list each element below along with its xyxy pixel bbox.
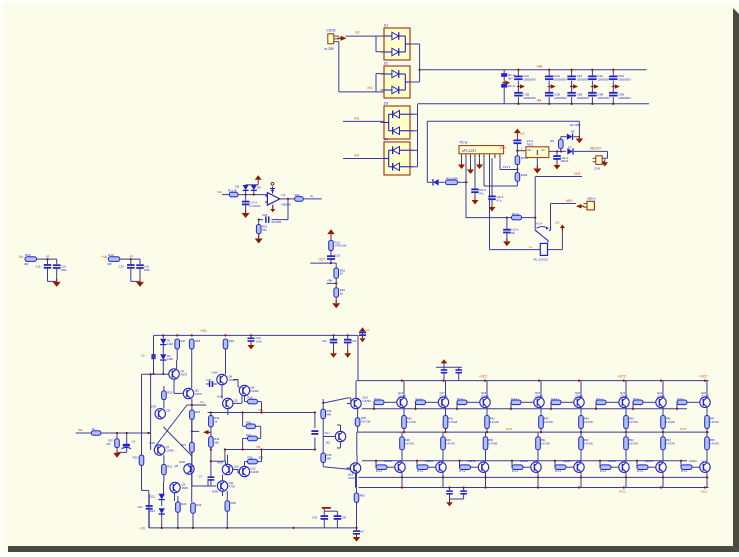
resistor lower emitter 0 <box>400 432 415 462</box>
svg-text:RL-12VDC: RL-12VDC <box>534 258 549 262</box>
wire Q25 collector <box>442 472 444 487</box>
transistor Q20 top out <box>574 391 584 407</box>
svg-text:100n: 100n <box>256 339 262 343</box>
svg-text:100k: 100k <box>521 173 528 177</box>
svg-text:R43: R43 <box>544 417 549 421</box>
resistor R29 <box>245 396 262 413</box>
IC U2 uPC1237 <box>459 141 504 154</box>
transistor Q1 <box>169 369 188 379</box>
svg-text:C4: C4 <box>132 440 136 444</box>
svg-text:R 2.2: R 2.2 <box>511 398 518 401</box>
svg-text:R32: R32 <box>248 456 254 460</box>
svg-text:+VCC: +VCC <box>479 375 488 379</box>
wire bus lower <box>225 445 316 451</box>
resistor RF2 <box>107 253 120 266</box>
svg-text:R 2.2: R 2.2 <box>681 470 688 473</box>
wire top caps <box>436 363 462 367</box>
svg-text:R 2.2: R 2.2 <box>374 398 381 401</box>
net label m1 <box>355 31 360 35</box>
net label IN <box>78 428 83 432</box>
wire driver col <box>357 367 359 380</box>
resistor emitter Q19 <box>539 407 554 433</box>
svg-text:D1: D1 <box>384 24 388 28</box>
diode D11 bias <box>160 354 173 375</box>
svg-text:C5A: C5A <box>618 74 624 78</box>
transistor Q23 top out <box>700 391 710 407</box>
capacitor C2-B filter bottom <box>545 87 567 105</box>
wire base bus top <box>362 408 687 410</box>
svg-text:R17: R17 <box>181 339 187 343</box>
capacitor C12 <box>503 218 518 241</box>
svg-text:12V: 12V <box>555 221 560 225</box>
resistor R12 <box>295 193 304 201</box>
wire to cap <box>330 251 332 256</box>
power port divider <box>327 229 335 240</box>
ground bottom <box>353 534 361 542</box>
capacitor C17 <box>242 195 261 213</box>
ground zobel <box>446 499 453 506</box>
svg-text:R44: R44 <box>584 417 589 421</box>
resistor R13 75k <box>256 220 267 234</box>
svg-text:R 2.2: R 2.2 <box>633 398 640 401</box>
wire spreader to driver tops <box>348 398 351 469</box>
svg-text:Q26: Q26 <box>481 460 487 464</box>
capacitor C19 <box>327 254 340 264</box>
svg-text:100u: 100u <box>61 268 68 272</box>
svg-text:C15: C15 <box>35 265 41 269</box>
svg-text:R25: R25 <box>133 455 139 459</box>
svg-text:C23: C23 <box>351 339 356 343</box>
svg-text:R 2.2: R 2.2 <box>512 470 519 473</box>
resistor lower emitter 2 <box>483 432 498 462</box>
resistor R30 <box>243 413 261 450</box>
svg-text:R20: R20 <box>167 391 173 395</box>
svg-text:R51: R51 <box>541 438 546 442</box>
svg-text:Q31: Q31 <box>702 460 708 464</box>
svg-text:KB5-A: KB5-A <box>587 196 596 200</box>
resistor lower emitter 1 <box>441 432 456 462</box>
svg-text:D7: D7 <box>568 145 572 149</box>
svg-text:7812: 7812 <box>527 143 534 147</box>
capacitor C2-A filter top <box>545 69 567 87</box>
power cluster corner <box>359 327 370 342</box>
svg-text:D13: D13 <box>150 509 155 513</box>
diode D8 <box>235 185 248 195</box>
wire m1 <box>346 36 385 52</box>
wire front +rail <box>154 329 358 335</box>
ground pin3 <box>467 158 474 174</box>
svg-text:A1943: A1943 <box>384 459 392 463</box>
svg-text:C2A: C2A <box>554 74 560 78</box>
transistor Q2 <box>183 388 202 398</box>
svg-text:+b: +b <box>129 254 133 258</box>
svg-text:R46: R46 <box>666 417 671 421</box>
wire +V rail <box>420 65 647 70</box>
svg-text:R23: R23 <box>181 502 187 506</box>
resistor R33a <box>209 413 220 437</box>
power port mid bleeder <box>502 81 510 86</box>
transistor Q9 <box>170 482 188 492</box>
svg-text:OUT: OUT <box>319 258 326 262</box>
svg-text:100u: 100u <box>144 268 151 272</box>
resistor base Q17 <box>414 398 438 410</box>
resistor base Q27 <box>511 460 531 473</box>
svg-text:R 2.2: R 2.2 <box>555 470 562 473</box>
svg-text:C24: C24 <box>138 505 143 509</box>
resistor emitter Q21 <box>624 407 639 433</box>
wire Q1 <box>174 349 183 393</box>
ground C11 <box>554 162 561 170</box>
svg-text:2W: 2W <box>24 262 29 266</box>
svg-text:0.47/2W: 0.47/2W <box>541 442 551 445</box>
svg-text:K1-A: K1-A <box>537 222 543 226</box>
svg-text:R 2.2: R 2.2 <box>460 470 467 473</box>
svg-text:-VA: -VA <box>18 255 24 259</box>
svg-text:C2B: C2B <box>554 92 560 96</box>
svg-text:4148: 4148 <box>167 342 173 346</box>
wire Q23 collector <box>706 381 708 398</box>
wire VAS upper <box>222 349 242 415</box>
wire front -V column <box>354 470 365 529</box>
net label m2 <box>368 86 373 90</box>
svg-text:4k7: 4k7 <box>508 76 513 80</box>
svg-text:100uF: 100uF <box>561 159 569 163</box>
ground regulator <box>533 158 541 174</box>
svg-text:C19: C19 <box>335 254 341 258</box>
wire Q31 collector <box>706 472 708 487</box>
net label OUT divider <box>319 258 326 262</box>
capacitor CF1b <box>53 259 67 281</box>
svg-text:C3B: C3B <box>577 92 583 96</box>
net dots front rail <box>152 334 349 375</box>
wire pin2 sense <box>465 158 467 217</box>
power port gnd tap 4 <box>591 84 599 89</box>
svg-text:Q28: Q28 <box>576 460 582 464</box>
capacitor C5-B filter bottom <box>609 87 631 105</box>
transistor Q25 bottom out <box>425 459 446 472</box>
svg-text:R42: R42 <box>490 417 495 421</box>
svg-text:C4A: C4A <box>597 74 603 78</box>
wire OUT bus <box>357 427 709 432</box>
svg-text:TH 1: TH 1 <box>324 431 330 435</box>
resistor base Q23 <box>676 398 700 410</box>
svg-text:47u: 47u <box>497 198 502 202</box>
svg-text:R 2.2: R 2.2 <box>457 398 464 401</box>
svg-text:R 2.2: R 2.2 <box>376 470 383 473</box>
svg-text:C2240: C2240 <box>166 448 175 452</box>
relay K1 coil <box>534 243 549 261</box>
svg-text:D4: D4 <box>384 138 388 142</box>
resistor emitter Q22 <box>661 407 676 433</box>
svg-text:C7: C7 <box>199 475 203 479</box>
diode D5 <box>427 179 444 185</box>
svg-text:C3A: C3A <box>577 74 583 78</box>
svg-text:U1: U1 <box>282 193 286 197</box>
capacitor C1-B filter bottom <box>514 87 536 105</box>
svg-text:C1A: C1A <box>523 74 529 78</box>
resistor base Q26 <box>458 460 478 473</box>
svg-text:-VD: -VD <box>140 527 146 531</box>
svg-text:D6: D6 <box>571 130 575 134</box>
capacitor C3-B filter bottom <box>567 87 589 105</box>
resistor R28 <box>225 491 236 528</box>
svg-text:C4793: C4793 <box>363 399 372 403</box>
svg-text:m3: m3 <box>354 116 359 120</box>
power arrow MD <box>576 204 585 209</box>
wire front caps <box>324 511 337 515</box>
capacitor C10 <box>513 136 521 151</box>
ground J2 <box>602 159 609 166</box>
capacitor C28 spreader <box>311 430 318 435</box>
svg-text:C33: C33 <box>312 516 317 520</box>
resistor base Q22 <box>632 398 656 410</box>
resistor R4 <box>515 151 528 171</box>
wire tap <box>327 278 338 287</box>
svg-text:1K2: 1K2 <box>325 441 330 445</box>
ground pin1 <box>458 158 465 169</box>
svg-text:C3280: C3280 <box>701 394 709 398</box>
net label MD+ <box>566 199 573 203</box>
regulator U3 7812 <box>526 139 549 157</box>
resistor lower emitter 3 <box>536 432 551 462</box>
wire pin7 to coil <box>490 245 541 250</box>
resistor base Q20 <box>550 398 574 410</box>
svg-text:R29: R29 <box>248 396 254 400</box>
wire cross couple 1 <box>163 427 192 456</box>
capacitor C4-A filter top <box>588 69 610 87</box>
resistor R22 <box>190 399 201 433</box>
resistor R23 <box>176 496 187 528</box>
wire input <box>76 432 92 434</box>
wire bus stubs <box>208 411 212 413</box>
transistor Q28 bottom out <box>563 459 584 472</box>
wire regulator out <box>549 150 566 152</box>
svg-text:R41: R41 <box>448 417 453 421</box>
svg-text:100 2W: 100 2W <box>361 419 371 423</box>
svg-text:0.47/2W: 0.47/2W <box>710 442 720 445</box>
svg-text:1V+: 1V+ <box>200 400 206 404</box>
svg-text:IN1: IN1 <box>78 428 83 432</box>
svg-text:R12: R12 <box>295 193 301 197</box>
svg-text:NJW: NJW <box>149 441 155 445</box>
transistor Q12 <box>239 466 259 476</box>
wire cross couple 2 <box>156 405 187 446</box>
wire OUT to relay <box>535 177 582 227</box>
svg-text:R24: R24 <box>196 503 202 507</box>
wire spreader frame <box>315 398 348 469</box>
resistor R3 10k <box>446 177 468 185</box>
resistor R5 100k <box>515 170 528 187</box>
svg-text:C4B: C4B <box>597 92 603 96</box>
capacitor C5-A filter top <box>609 69 631 87</box>
power mid arrow left <box>203 430 212 435</box>
wire filter 1 <box>37 254 57 260</box>
wire collector bus bottom <box>359 476 709 478</box>
transistor Q21 top out <box>619 391 629 407</box>
resistor R2-A bleeder bottom <box>501 77 515 104</box>
transistor Q3 <box>150 405 171 419</box>
svg-text:47k: 47k <box>106 442 111 446</box>
svg-text:C18: C18 <box>262 213 268 217</box>
resistor R11 <box>222 189 238 197</box>
svg-text:C21: C21 <box>256 336 261 340</box>
net label IN <box>217 190 222 194</box>
net label V2 <box>101 255 108 259</box>
svg-text:R47: R47 <box>710 417 715 421</box>
diode D12 <box>150 494 165 506</box>
resistor lower emitter 7 <box>705 432 720 462</box>
svg-text:0.47/2W: 0.47/2W <box>490 421 500 424</box>
resistor lower emitter 5 <box>624 432 639 462</box>
resistor base Q18 <box>456 398 480 410</box>
resistor base Q21 <box>595 398 619 410</box>
wire m3 <box>343 116 384 121</box>
capacitor C35 bottom <box>353 528 365 537</box>
svg-text:+VD: +VD <box>200 329 207 333</box>
svg-text:10000/50V: 10000/50V <box>523 78 536 82</box>
wire input gnd <box>117 451 127 453</box>
svg-text:Q8: Q8 <box>174 464 178 468</box>
rectifier diode pair D2 <box>381 62 414 99</box>
svg-text:Q27: Q27 <box>533 460 539 464</box>
svg-text:R53: R53 <box>629 438 634 442</box>
transistor Q24 bottom out <box>384 459 405 472</box>
resistor emitter Q18 <box>485 407 500 433</box>
svg-text:R 2.2: R 2.2 <box>600 470 607 473</box>
wire output +rail <box>357 380 709 382</box>
svg-text:0.47/2W: 0.47/2W <box>584 442 594 445</box>
resistor R36 driver <box>355 409 370 432</box>
capacitor CF1a <box>35 259 51 281</box>
wire base bus bottom <box>362 460 687 462</box>
svg-text:C3280: C3280 <box>535 394 543 398</box>
resistor R35 <box>321 453 332 463</box>
wire Q29 collector <box>625 472 627 487</box>
power port 12V relay <box>555 221 565 232</box>
resistor emitter Q16 <box>402 407 417 433</box>
svg-text:IN1: IN1 <box>217 190 222 194</box>
svg-text:0.47/2W: 0.47/2W <box>629 442 639 445</box>
rectifier diode pair D1 <box>381 24 414 61</box>
wire reg input <box>516 148 526 152</box>
capacitor C31 zobel <box>446 486 463 499</box>
svg-text:OUT: OUT <box>506 427 513 431</box>
wire diode tops <box>246 184 259 186</box>
svg-text:0.47/2W: 0.47/2W <box>629 421 639 424</box>
capacitor C1-A filter top <box>514 69 536 87</box>
resistor R19 <box>223 339 234 349</box>
svg-text:C3280: C3280 <box>575 394 583 398</box>
svg-text:2W: 2W <box>107 262 112 266</box>
diode D7 <box>567 145 608 154</box>
ground C22 <box>330 350 337 358</box>
net dots front bottom <box>161 527 295 529</box>
svg-text:A1943: A1943 <box>689 459 697 463</box>
wire Q21 collector <box>625 381 627 398</box>
svg-text:m8: m8 <box>521 131 525 135</box>
capacitor CF2b <box>136 259 150 281</box>
wire OUT divider <box>310 262 332 264</box>
svg-text:R 2.2: R 2.2 <box>417 470 424 473</box>
svg-text:C1B: C1B <box>523 92 529 96</box>
net label 12V+ <box>499 146 507 150</box>
svg-text:R37: R37 <box>181 443 186 447</box>
svg-text:Q24: Q24 <box>397 460 403 464</box>
svg-text:12V+: 12V+ <box>499 146 507 150</box>
diode D10 bias <box>160 335 173 354</box>
resistor emitter Q17 <box>443 407 458 433</box>
svg-text:d+: d+ <box>310 194 314 198</box>
svg-text:C3: C3 <box>141 354 145 358</box>
svg-text:1+: 1+ <box>529 245 533 249</box>
capacitor C9 4.7u <box>488 158 503 206</box>
svg-text:m-28V: m-28V <box>325 47 335 51</box>
capacitor C4-B filter bottom <box>588 87 610 105</box>
wire mid to Q10 <box>211 448 226 464</box>
svg-text:1K: 1K <box>340 291 344 295</box>
transistor Q14 driver top <box>347 381 371 409</box>
wire filter 2 <box>120 254 140 260</box>
svg-text:+V: +V <box>366 328 370 332</box>
svg-text:Q3: Q3 <box>167 409 171 413</box>
svg-text:A1943: A1943 <box>645 459 653 463</box>
resistor R6 1k <box>550 137 563 152</box>
svg-text:A733: A733 <box>229 484 236 488</box>
resistor R37 <box>181 431 204 486</box>
resistor emitter Q20 <box>579 407 594 433</box>
svg-text:0.47/2W: 0.47/2W <box>405 442 415 445</box>
power symbol front caps <box>322 507 331 511</box>
wire front -rail <box>140 527 357 531</box>
resistor R21 <box>162 455 173 481</box>
svg-text:R40: R40 <box>407 417 412 421</box>
connector CON1 <box>325 29 340 51</box>
capacitor C23 <box>344 335 357 352</box>
svg-text:10000/50V: 10000/50V <box>523 96 536 100</box>
ground C17 <box>242 210 250 218</box>
capacitor C3-A filter top <box>567 69 589 87</box>
resistor R27 47k <box>106 433 119 452</box>
svg-text:680: 680 <box>327 412 332 416</box>
svg-text:C3280: C3280 <box>481 394 489 398</box>
svg-text:10000/50V: 10000/50V <box>597 78 610 82</box>
wire Q24 collector <box>401 472 403 487</box>
power port gnd tap 3 <box>570 84 578 89</box>
svg-text:C15: C15 <box>119 265 125 269</box>
transistor Q15 driver bottom <box>347 463 361 488</box>
svg-text:R6: R6 <box>550 139 554 143</box>
net label VAS <box>187 400 206 406</box>
svg-text:A1943: A1943 <box>520 459 528 463</box>
svg-text:680: 680 <box>327 456 332 460</box>
svg-text:C3280: C3280 <box>620 394 628 398</box>
svg-text:R 2.2: R 2.2 <box>677 398 684 401</box>
svg-text:10000/50V: 10000/50V <box>577 78 590 82</box>
svg-text:R48: R48 <box>405 438 410 442</box>
resistor emitter Q23 <box>705 407 720 433</box>
power port gnd tap 2 <box>548 84 556 89</box>
svg-text:+b: +b <box>46 254 50 258</box>
capacitor C24 <box>138 494 153 528</box>
wire input bases <box>147 374 150 450</box>
svg-text:NJW: NJW <box>212 489 218 493</box>
svg-text:0.47/2W: 0.47/2W <box>448 421 458 424</box>
svg-text:0.47/2W: 0.47/2W <box>710 421 720 424</box>
svg-text:R11 2k: R11 2k <box>228 189 237 193</box>
wire driver bot emitter <box>356 432 358 463</box>
svg-text:R7-A: R7-A <box>512 212 519 216</box>
svg-text:R54: R54 <box>666 438 671 442</box>
